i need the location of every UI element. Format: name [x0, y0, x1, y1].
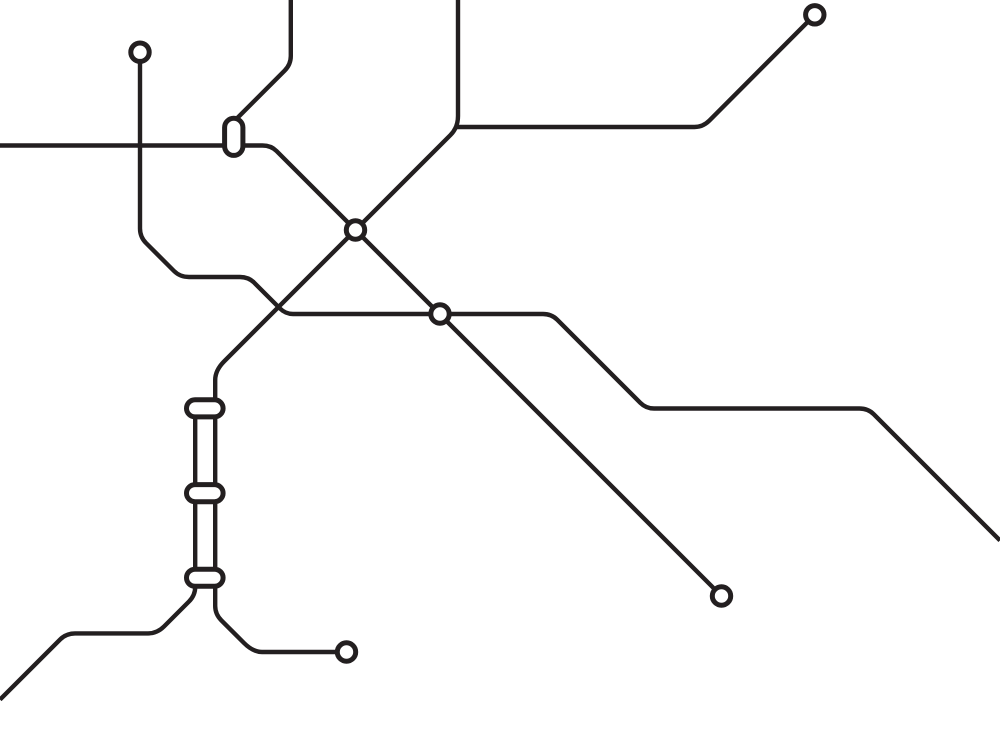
wire ladder left rail curving SW to bottom-left exit (route E) — [0, 405, 195, 700]
interchange pill ladder bottom — [187, 569, 224, 586]
wire north vertical bending into NE-SW diagonal through central cross into ladder right rail and SE spur (route C) — [215, 0, 458, 652]
station terminus circle south spur — [337, 643, 355, 661]
station terminus circle SE — [712, 587, 730, 605]
interchange pill ladder middle — [187, 485, 224, 502]
interchange pill ladder top — [187, 400, 224, 417]
wire north branch descending to interchange pill (route B) — [236, 0, 291, 119]
interchange pill vertical upper — [225, 118, 243, 155]
wire east horizontal to NE terminus diagonal (route D) — [457, 15, 815, 127]
station terminus circle NE — [806, 6, 824, 24]
wire west horizontal line curving to long SE diagonal (route A) — [0, 146, 722, 597]
wire NW terminus line south then east across map to SE exit (route F) — [140, 60, 1000, 541]
station terminus circle NW — [131, 43, 149, 61]
station circle mid crossing — [431, 305, 449, 323]
station circle central cross interchange — [346, 221, 364, 239]
